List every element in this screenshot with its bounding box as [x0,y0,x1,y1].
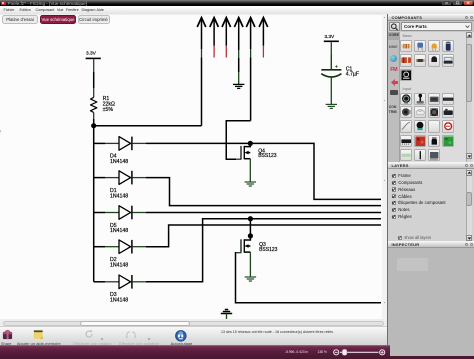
wire D2 cathode up to bus line 5 [146,225,381,247]
resistor R1 22k [91,96,115,113]
bin scrollbar [466,32,473,163]
flip icon (disabled) [125,330,137,339]
pin arrow J1-4 [234,18,243,84]
svg-text:4.7µF: 4.7µF [346,71,359,77]
autoroute icon [175,330,187,342]
svg-text:1N4148: 1N4148 [110,193,128,199]
section labels [403,33,413,38]
junction dot Q3 drain [248,233,253,238]
ground symbol under J1-4 [233,84,244,88]
wire D4 cathode to Q4 drain node [146,142,250,144]
wire Q4 drain node to right bus line 1 [250,143,381,199]
transistor Q3 BSS123 [241,236,278,253]
share icon [2,329,13,340]
ground symbol (flipped, floating below Q3) [221,310,232,321]
diode D1 1N4148 [94,171,146,200]
wire C1 negative to ground [330,78,332,104]
wire vertical bus (diode anodes) [93,126,95,282]
svg-text:3.3V: 3.3V [86,51,97,57]
transistor Q4 BSS123 [241,143,277,159]
wire D1 cathode to bus line 2 [146,178,381,206]
pin arrow J1-6 (unrouted) [259,18,268,58]
ground symbol Q3 source [245,277,256,281]
capacitor C1 4.7uF (polarized) [321,64,359,77]
pin arrow J1-3 (unrouted) [222,18,231,58]
note icon [33,329,44,340]
canvas background [0,14,382,320]
wire D5 cathode straight to right (bus line 3) [146,212,381,214]
svg-text:BSS123: BSS123 [258,153,277,159]
routing status text [221,330,333,334]
svg-text:±5%: ±5% [103,107,114,113]
svg-text:x: x [0,129,2,134]
wire Q3 source to ground [249,252,251,277]
wire R1 bottom to node A [93,113,95,120]
bin tabs strip [388,32,400,163]
diode D2 1N4148 [94,240,146,269]
power +3.3V supply symbol (C1 rail) [324,34,339,69]
svg-text:BSS123: BSS123 [259,247,278,253]
wire Q3 gate down and right to edge [236,252,241,254]
diode D5 1N4148 [94,206,146,235]
rotate icon (disabled) [84,329,94,339]
pin arrow J1-5 [246,18,255,121]
ground symbol Q4 source [245,182,256,186]
parts grid [400,40,412,52]
svg-text:1N4148: 1N4148 [110,298,128,304]
wire Q3 drain to junction above [249,219,251,236]
pin arrow J1-2 (unrouted) [210,18,219,58]
wire node A to header pin 1 [94,125,202,127]
junction dot Q4 drain [248,141,253,146]
pin arrow J1-1 [197,18,206,126]
junction dot Q3 drain tap [248,216,253,221]
parts panel [388,14,474,21]
svg-text:1N4148: 1N4148 [110,228,128,234]
ground symbol C1 [326,104,337,108]
power +3.3V supply symbol (left rail) [86,51,101,98]
diode D3 1N4148 [94,275,146,304]
svg-text:1N4148: 1N4148 [110,159,128,165]
layers panel [388,162,474,169]
svg-text:3.3V: 3.3V [324,34,335,40]
node A junction dot [91,123,96,128]
layers scrollbar [466,169,472,241]
parts bin body [388,32,474,163]
wire Q4 source to ground [249,159,251,182]
inspector panel [388,241,474,248]
svg-text:1N4148: 1N4148 [110,262,128,268]
diode D4 1N4148 [94,137,146,166]
wire J1-5 to Q4 gate [226,121,250,160]
wire D3 cathode up to bus line 4 (Q3 drain net) [146,219,381,282]
